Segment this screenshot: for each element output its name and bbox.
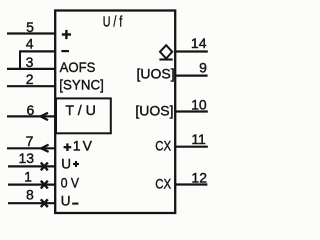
wire pin 11 (176, 146, 208, 148)
wire pin 10 (176, 110, 208, 112)
arrowhead pin 6 (pointing left) (41, 113, 48, 120)
svg-text:1: 1 (73, 138, 81, 154)
minus polarity symbol (pin 4) (61, 50, 69, 52)
svg-text:[UOS]: [UOS] (137, 66, 175, 82)
wire pin 5 (7, 32, 55, 34)
bar under diamond (159, 58, 172, 60)
open-collector diamond symbol (pin 14) (160, 45, 172, 58)
svg-text:U: U (61, 156, 71, 171)
non-logic X mark pin 1 (41, 181, 48, 189)
wire pin 12 (176, 183, 207, 185)
svg-text:11: 11 (191, 131, 206, 147)
plus of label U+ (73, 161, 79, 167)
svg-text:[UOS]: [UOS] (135, 103, 173, 119)
svg-text:12: 12 (191, 170, 207, 186)
minus of label U- (72, 203, 78, 205)
wire pin 7 (7, 147, 55, 149)
wire pin 1 (8, 184, 55, 186)
svg-text:13: 13 (19, 150, 35, 166)
svg-text:CX: CX (155, 137, 171, 153)
svg-text:5: 5 (26, 19, 34, 35)
svg-text:2: 2 (26, 71, 34, 87)
svg-text:AOFS: AOFS (60, 59, 96, 75)
wire pin 2 (7, 85, 55, 87)
svg-text:14: 14 (191, 35, 207, 51)
plus polarity symbol (pin 5) (62, 30, 71, 39)
svg-text:V: V (83, 138, 93, 154)
svg-text:[SYNC]: [SYNC] (59, 77, 104, 93)
T/U function box (56, 98, 111, 133)
non-logic X mark pin 13 (41, 163, 48, 171)
plus of label +1V (64, 143, 72, 151)
svg-text:7: 7 (26, 133, 34, 149)
svg-text:10: 10 (191, 97, 207, 113)
svg-text:0 V: 0 V (61, 174, 80, 190)
qualifier box left side (pin 3) (19, 50, 21, 69)
svg-text:4: 4 (26, 36, 34, 52)
svg-text:8: 8 (26, 187, 34, 203)
wire pin 3 (7, 68, 55, 70)
IC block U/f converter outline (55, 11, 175, 214)
svg-text:9: 9 (199, 60, 207, 76)
svg-text:U: U (61, 193, 71, 208)
wire pin 8 (8, 202, 55, 204)
svg-text:U / f: U / f (103, 13, 123, 30)
svg-text:3: 3 (26, 54, 34, 70)
wire pin 13 (8, 165, 55, 167)
wire pin 14 (176, 50, 208, 52)
svg-text:T / U: T / U (65, 102, 96, 118)
arrowhead pin 7 (pointing left) (41, 145, 48, 152)
wire pin 4 (forms top of pin-3 qualifier box) (20, 50, 55, 52)
wire pin 9 (176, 74, 208, 76)
svg-text:1: 1 (24, 169, 32, 185)
svg-text:6: 6 (27, 102, 35, 118)
non-logic X mark pin 8 (41, 199, 48, 207)
svg-text:CX: CX (155, 175, 171, 191)
wire pin 6 (7, 115, 55, 117)
